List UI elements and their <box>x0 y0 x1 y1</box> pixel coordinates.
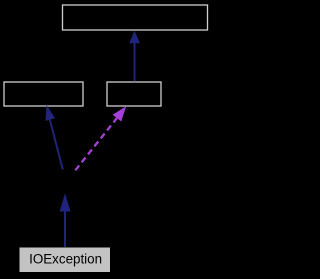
svg-text:IOException: IOException <box>29 252 102 267</box>
